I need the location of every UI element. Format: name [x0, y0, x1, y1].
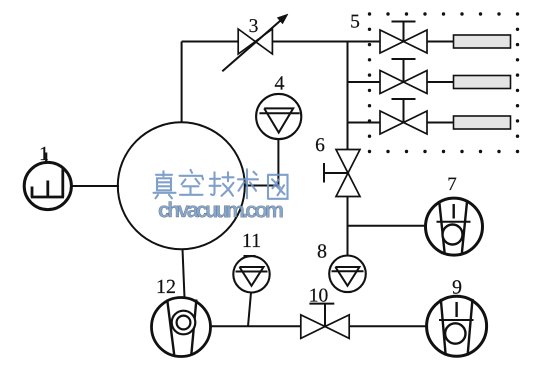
wire: chamber right to gauge 4 [244, 185, 278, 187]
wire: pump 12 to valve 10 [211, 325, 301, 327]
gas admittance valve row 1 [380, 22, 427, 54]
hanzi kong [180, 170, 204, 195]
wire: valve 6 down to gauge 8 [347, 197, 349, 257]
wire: bus stub to valve row 2 [348, 81, 381, 83]
gas reservoir row 1 [454, 35, 511, 48]
svg-text:5: 5 [350, 11, 360, 32]
gauge G11 thermocouple [233, 256, 269, 292]
hanzi shu [238, 169, 258, 198]
dotted enclosure 5 [368, 12, 519, 153]
wire: valve 10 to pump 9 [349, 325, 427, 327]
valve V6 with handle [324, 150, 360, 197]
hanzi wang [268, 175, 288, 199]
hanzi zhen [154, 171, 176, 198]
valve V3 needle valve bowtie [238, 29, 272, 54]
wire: chamber bottom to pump 12 [183, 249, 185, 298]
gauge G4 thermocouple [256, 94, 301, 139]
svg-text:3: 3 [249, 16, 259, 37]
svg-text:12: 12 [156, 276, 176, 298]
svg-text:6: 6 [315, 135, 325, 156]
wire: bus stub to valve row 3 [348, 122, 381, 124]
gauge 1 ionization [24, 153, 71, 210]
watermark hanzi 真空技术网 [154, 169, 288, 199]
wire: gauge 4 drop [277, 139, 279, 185]
wire: junction to pump 7 [348, 225, 426, 227]
valve V3 adjustment arrow [222, 14, 288, 71]
gas admittance valve row 3 [380, 99, 427, 134]
wire: chamber top riser [181, 42, 183, 123]
svg-text:7: 7 [447, 174, 457, 195]
pump P12 [152, 298, 211, 357]
gas reservoir row 3 [454, 116, 511, 129]
svg-text:4: 4 [274, 72, 284, 94]
wire: vertical bus from node 5 down to valve 6 [347, 42, 349, 150]
hanzi ji [210, 172, 234, 196]
svg-text:11: 11 [242, 230, 261, 252]
valve V10 with handle [301, 304, 349, 339]
wire: gauge 1 to chamber [71, 185, 119, 187]
wire: top line right of valve 3 to box bus and first valve [272, 41, 380, 43]
wire: valve row2 to reservoir 2 [427, 81, 454, 83]
vacuum chamber [118, 122, 245, 249]
wire: valve row1 to reservoir 1 [427, 41, 454, 43]
gas admittance valve row 2 [380, 59, 427, 94]
pump P7 [426, 198, 483, 255]
svg-text:chvacuum.com: chvacuum.com [158, 198, 284, 222]
gas reservoir row 2 [454, 76, 511, 89]
gauge G8 thermocouple [329, 255, 366, 292]
wire: valve row3 to reservoir 3 [427, 122, 454, 124]
svg-text:8: 8 [317, 240, 327, 262]
wire: top line left of valve 3 [182, 41, 239, 43]
pump P9 [427, 296, 487, 356]
wire: gauge 11 drop to foreline [248, 293, 251, 327]
